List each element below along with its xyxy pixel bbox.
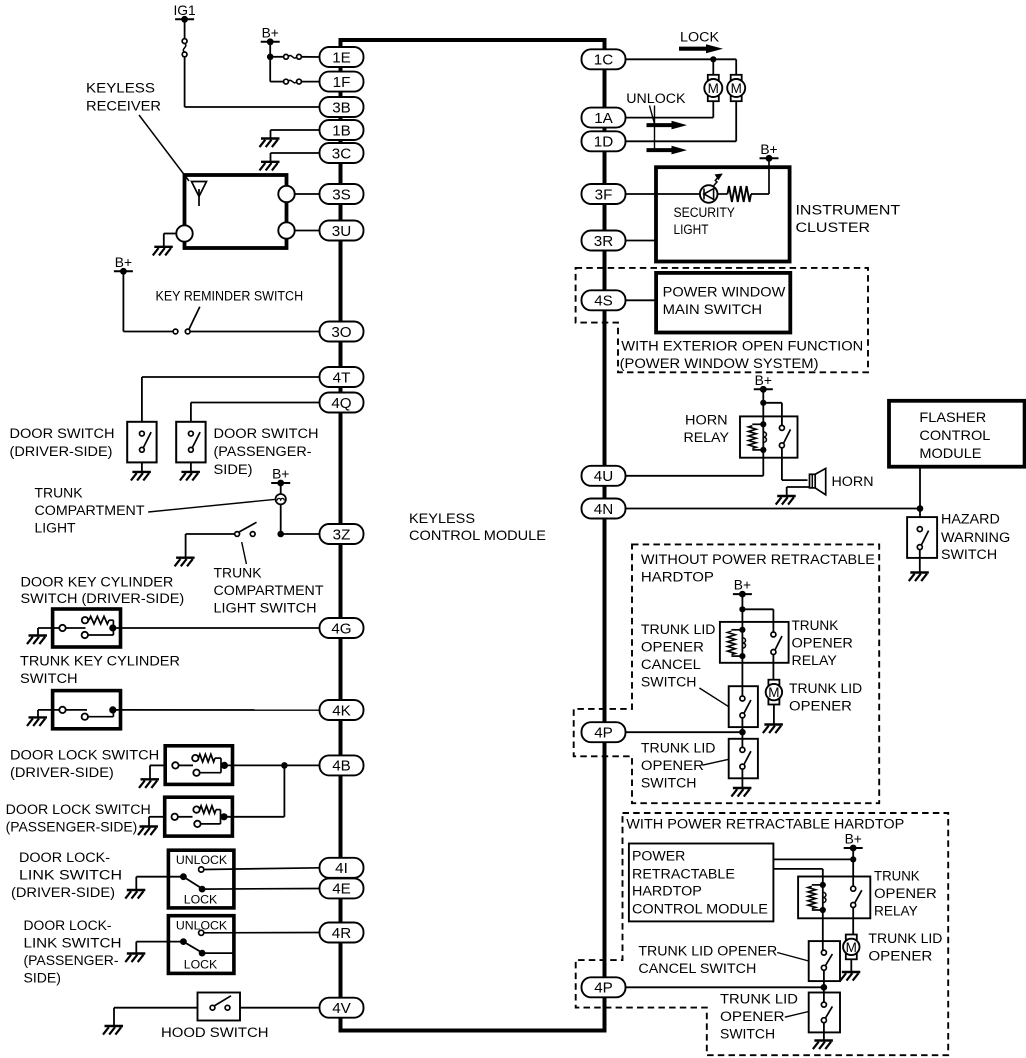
svg-text:SWITCH: SWITCH <box>20 671 78 686</box>
svg-text:1C: 1C <box>594 52 613 69</box>
svg-text:4T: 4T <box>333 369 351 386</box>
door lock-link switch passenger contacts <box>176 919 320 972</box>
hazard warning switch contacts <box>917 527 928 550</box>
power B+ top-left <box>261 25 280 45</box>
wire 3F to security light <box>625 193 700 195</box>
svg-text:LINK SWITCH: LINK SWITCH <box>24 936 122 951</box>
dashed region with exterior open function <box>576 268 868 372</box>
svg-text:INSTRUMENT: INSTRUMENT <box>796 203 901 218</box>
wire 3R to instrument cluster <box>625 240 656 242</box>
svg-text:SWITCH: SWITCH <box>941 547 997 562</box>
wire B+ to relay switch <box>852 848 854 886</box>
svg-text:M: M <box>846 940 857 955</box>
wire relay switch 2 to motor <box>852 908 854 936</box>
svg-text:RELAY: RELAY <box>874 904 918 919</box>
svg-text:DOOR SWITCH: DOOR SWITCH <box>10 426 115 441</box>
pin 1D <box>582 131 626 151</box>
pin 4R <box>320 923 364 943</box>
svg-text:POWER: POWER <box>632 849 686 864</box>
svg-text:CONTROL MODULE: CONTROL MODULE <box>409 527 546 543</box>
pin 4U <box>582 466 626 486</box>
svg-text:M: M <box>768 685 779 700</box>
pin 4P upper <box>582 722 626 742</box>
wire trunk key cylinder ground lead <box>38 710 59 718</box>
wire 4P lower to junction <box>625 986 824 988</box>
ground trunk lid opener motor 2 <box>840 972 860 981</box>
pin 3S <box>320 184 364 204</box>
svg-text:3U: 3U <box>332 223 351 240</box>
wire cancel switch to junction <box>741 718 743 748</box>
power window main switch label <box>663 284 786 318</box>
pin 3C <box>320 143 364 163</box>
svg-text:RELAY: RELAY <box>792 653 837 668</box>
keyless receiver box <box>185 175 287 248</box>
svg-text:OPENER: OPENER <box>641 758 704 773</box>
svg-text:OPENER: OPENER <box>874 886 937 901</box>
wire horn relay switch to horn <box>782 448 808 480</box>
wire motor M3 ground lead <box>773 705 775 725</box>
svg-text:4R: 4R <box>332 925 351 942</box>
svg-text:(PASSENGER-: (PASSENGER- <box>214 444 312 459</box>
trunk opener relay K3 <box>798 877 870 919</box>
pin 4N <box>582 499 626 519</box>
leader line trunk light <box>148 499 275 512</box>
trunk compartment light label <box>35 486 145 536</box>
svg-text:CANCEL SWITCH: CANCEL SWITCH <box>638 961 756 976</box>
pin 4I <box>320 858 364 878</box>
svg-text:KEYLESS: KEYLESS <box>86 81 155 96</box>
door lock-link switch passenger label <box>24 918 122 986</box>
svg-text:TRUNK: TRUNK <box>874 869 920 884</box>
svg-text:SECURITY: SECURITY <box>674 205 735 220</box>
horn relay K1 <box>740 416 798 457</box>
wire door lock switch driver to 4B <box>224 764 320 766</box>
svg-text:TRUNK LID: TRUNK LID <box>789 681 862 696</box>
trunk lid opener cancel switch 2 contacts <box>821 950 832 970</box>
pin 3F <box>582 184 626 204</box>
svg-text:(DRIVER-SIDE): (DRIVER-SIDE) <box>11 885 115 900</box>
junction trunk opener 2 B+ <box>850 856 856 862</box>
wire B+ to horn relay <box>763 389 782 425</box>
svg-text:MAIN SWITCH: MAIN SWITCH <box>663 301 762 317</box>
pin 4B <box>320 755 364 775</box>
svg-text:1F: 1F <box>333 74 351 91</box>
key reminder switch S1 <box>173 307 200 334</box>
svg-text:WITH EXTERIOR OPEN FUNCTION: WITH EXTERIOR OPEN FUNCTION <box>621 339 863 354</box>
motor M3 trunk lid opener <box>766 680 782 705</box>
keyless control module U1 outline <box>341 40 605 1031</box>
ground horn <box>776 496 796 505</box>
svg-text:LOCK: LOCK <box>184 958 218 972</box>
svg-text:B+: B+ <box>845 832 862 847</box>
svg-text:4N: 4N <box>594 501 613 518</box>
svg-text:4S: 4S <box>594 293 613 310</box>
junction 4N hazard <box>917 505 924 512</box>
wire B+ to key reminder switch <box>123 271 173 331</box>
dashed region with power retractable hardtop <box>576 813 949 1055</box>
ground trunk light switch <box>175 558 195 567</box>
svg-text:CANCEL: CANCEL <box>641 657 701 672</box>
wire motor M4 ground lead <box>850 959 852 972</box>
svg-text:FLASHER: FLASHER <box>919 409 986 425</box>
door key cylinder switch box <box>53 609 121 647</box>
svg-text:WARNING: WARNING <box>941 530 1010 545</box>
ground trunk key cylinder <box>27 717 47 726</box>
ground door lock-link driver <box>125 890 145 899</box>
trunk lid opener cancel switch 2 label <box>638 944 777 977</box>
svg-text:RECEIVER: RECEIVER <box>86 99 161 114</box>
svg-text:LOCK: LOCK <box>184 893 218 907</box>
pin 4T <box>320 367 364 387</box>
trunk light switch S2 <box>235 522 257 536</box>
with power retractable hardtop label <box>626 817 904 832</box>
svg-text:HORN: HORN <box>832 474 874 489</box>
junction 4B <box>281 762 288 769</box>
junction horn relay B+ <box>760 400 766 406</box>
antenna symbol <box>192 182 207 207</box>
svg-text:B+: B+ <box>755 373 772 388</box>
leader line cancel switch <box>699 688 728 707</box>
wire IG1 to 3B <box>185 19 320 107</box>
terminal 3S on receiver <box>278 186 294 202</box>
trunk lid opener switch label <box>641 741 716 791</box>
svg-text:3R: 3R <box>594 233 613 250</box>
trunk lid opener cancel switch 2 box <box>809 941 840 981</box>
svg-text:HOOD SWITCH: HOOD SWITCH <box>161 1025 269 1040</box>
wire 1B ground lead <box>271 130 321 139</box>
svg-text:(DRIVER-SIDE): (DRIVER-SIDE) <box>10 444 113 459</box>
svg-text:LOCK: LOCK <box>680 30 719 45</box>
terminal gnd on receiver <box>176 225 192 241</box>
ground 3C <box>260 162 280 171</box>
svg-text:M: M <box>708 81 719 96</box>
wire door lock-link passenger ground lead <box>136 942 183 954</box>
svg-text:LIGHT: LIGHT <box>674 222 709 237</box>
svg-text:SWITCH: SWITCH <box>641 776 697 791</box>
svg-text:1E: 1E <box>332 49 351 66</box>
terminal 3U on receiver <box>278 222 294 238</box>
svg-text:SIDE): SIDE) <box>214 462 253 477</box>
svg-text:CONTROL MODULE: CONTROL MODULE <box>632 902 768 917</box>
door key cylinder switch contacts <box>59 616 116 638</box>
svg-text:HARDTOP: HARDTOP <box>632 884 702 899</box>
wire relay coil to cancel switch <box>741 656 743 696</box>
svg-text:1A: 1A <box>594 110 613 127</box>
wire flasher to hazard switch <box>919 467 921 517</box>
svg-text:COMPARTMENT: COMPARTMENT <box>35 503 145 518</box>
resistor security light <box>718 158 770 202</box>
trunk lid opener switch box <box>729 739 758 779</box>
horn speaker <box>810 468 826 494</box>
wire PRH module to B+ <box>773 858 853 860</box>
instrument cluster label <box>796 203 901 236</box>
dashed region without power retractable hardtop <box>574 544 880 803</box>
door lock switch driver box <box>165 746 232 785</box>
trunk lid opener 2 label <box>868 931 942 964</box>
svg-text:LINK SWITCH: LINK SWITCH <box>19 868 122 883</box>
pin 3U <box>320 221 364 241</box>
svg-text:OPENER: OPENER <box>868 949 932 964</box>
svg-text:HORN: HORN <box>685 413 728 428</box>
lock arrow label <box>679 30 723 54</box>
svg-text:DOOR LOCK SWITCH: DOOR LOCK SWITCH <box>6 802 151 817</box>
door switch driver-side <box>127 422 156 463</box>
wire horn relay coil to 4U <box>625 450 763 476</box>
junction 4P upper <box>739 729 746 736</box>
svg-text:RELAY: RELAY <box>684 430 729 445</box>
power B+ trunk opener <box>733 578 752 598</box>
svg-text:CONTROL: CONTROL <box>919 427 990 443</box>
svg-text:4E: 4E <box>332 881 351 898</box>
door lock switch passenger contacts <box>172 806 228 827</box>
svg-text:TRUNK LID: TRUNK LID <box>641 622 716 637</box>
svg-text:LIGHT: LIGHT <box>35 521 76 536</box>
wire motor M2 to 1D <box>625 101 736 141</box>
keyless receiver label <box>86 81 161 114</box>
door switch passenger label <box>214 426 319 477</box>
wire door switch passenger to ground <box>190 462 192 472</box>
svg-text:CLUSTER: CLUSTER <box>796 220 871 235</box>
svg-text:B+: B+ <box>262 25 279 40</box>
wire hood switch to 4V <box>240 1007 320 1009</box>
trunk key cylinder switch box <box>53 691 121 729</box>
ground trunk lid opener switch <box>731 788 751 797</box>
wire B+ through trunk light to 3Z <box>281 483 320 534</box>
wire receiver ground lead <box>164 234 177 247</box>
svg-text:MODULE: MODULE <box>919 445 981 461</box>
ground door key cylinder <box>27 636 47 645</box>
svg-text:B+: B+ <box>760 142 777 157</box>
door switch passenger-side <box>176 422 205 463</box>
pin 1C <box>582 49 626 69</box>
trunk light switch label <box>214 566 324 616</box>
svg-text:OPENER: OPENER <box>792 636 854 651</box>
horn label <box>832 474 874 489</box>
svg-text:COMPARTMENT: COMPARTMENT <box>214 583 324 598</box>
svg-text:UNLOCK: UNLOCK <box>626 91 685 106</box>
security light label <box>674 205 735 237</box>
ground hazard switch <box>909 573 929 582</box>
wire key reminder switch to 3O <box>190 331 320 333</box>
flasher control module box <box>889 401 1025 467</box>
ground hood switch <box>103 1026 123 1035</box>
door lock switch driver contacts <box>172 754 228 776</box>
pin 3B <box>320 97 364 117</box>
svg-text:WITHOUT POWER RETRACTABLE: WITHOUT POWER RETRACTABLE <box>641 552 875 567</box>
ground receiver <box>153 247 173 256</box>
wire door lock switch driver ground lead <box>150 765 165 779</box>
power B+ trunk opener 2 <box>844 832 863 852</box>
svg-text:3O: 3O <box>331 324 351 341</box>
svg-text:SIDE): SIDE) <box>24 971 62 986</box>
pin 3R <box>582 231 626 251</box>
power B+ instrument cluster <box>760 142 779 162</box>
power B+ trunk light <box>271 467 290 487</box>
wire 4Q to door switch passenger <box>191 403 320 423</box>
trunk key cylinder switch label <box>20 654 180 687</box>
svg-text:M: M <box>731 81 742 96</box>
svg-text:SWITCH (DRIVER-SIDE): SWITCH (DRIVER-SIDE) <box>21 591 185 606</box>
svg-text:4I: 4I <box>335 860 348 877</box>
svg-text:TRUNK: TRUNK <box>792 618 839 633</box>
wire door lock switch passenger ground lead <box>149 817 165 827</box>
trunk opener relay label <box>792 618 854 668</box>
wire receiver to 3U <box>294 230 320 232</box>
ground door switch passenger <box>180 472 200 481</box>
svg-text:4G: 4G <box>331 620 351 637</box>
svg-text:B+: B+ <box>272 467 289 482</box>
wire 3C ground lead <box>271 153 321 162</box>
pin 4Q <box>320 393 364 413</box>
hood switch label <box>161 1025 269 1040</box>
svg-text:DOOR KEY CYLINDER: DOOR KEY CYLINDER <box>21 575 174 590</box>
wire 4N to hazard switch <box>625 508 920 510</box>
motor M1 door lock <box>704 75 722 101</box>
pin 3Z <box>320 524 364 544</box>
svg-text:TRUNK: TRUNK <box>214 566 262 581</box>
pin 1F <box>320 72 364 92</box>
pin 4E <box>320 878 364 898</box>
svg-text:SWITCH: SWITCH <box>641 675 697 690</box>
trunk lid opener switch 2 box <box>809 993 840 1033</box>
door lock-link switch driver box <box>168 850 234 908</box>
svg-text:OPENER: OPENER <box>789 699 852 714</box>
svg-text:KEY REMINDER SWITCH: KEY REMINDER SWITCH <box>156 289 304 304</box>
wire B+ to trunk opener relay <box>742 594 773 632</box>
hood switch contacts <box>210 996 231 1010</box>
door lock-link switch driver label <box>11 850 122 900</box>
svg-text:3C: 3C <box>332 145 351 162</box>
svg-text:4V: 4V <box>332 1000 351 1017</box>
power window main switch box <box>656 273 790 333</box>
instrument cluster box <box>656 167 790 261</box>
pin 4G <box>320 618 364 638</box>
horn relay label <box>684 413 729 446</box>
svg-text:UNLOCK: UNLOCK <box>176 853 228 867</box>
wire 4P to junction <box>625 731 742 733</box>
svg-text:DOOR SWITCH: DOOR SWITCH <box>214 426 319 441</box>
wire hood switch to ground <box>114 1008 198 1026</box>
wire trunk lid opener switch 2 ground <box>823 1023 825 1041</box>
power retractable hardtop control module box <box>629 844 774 922</box>
motor M4 trunk lid opener <box>843 935 859 960</box>
wire trunk key cylinder to 4K <box>113 709 320 711</box>
unlock arrow label <box>626 91 687 154</box>
ground 1B <box>260 139 280 148</box>
leader line keyless receiver <box>139 115 189 181</box>
pin 4K <box>320 700 364 720</box>
svg-text:HARDTOP: HARDTOP <box>641 570 714 585</box>
ground door lock-link passenger <box>125 954 145 963</box>
svg-text:B+: B+ <box>115 255 132 270</box>
trunk lid opener label <box>789 681 862 714</box>
ground door lock switch driver <box>139 779 159 788</box>
without power retractable hardtop label <box>641 552 875 585</box>
svg-text:4B: 4B <box>332 758 351 775</box>
svg-text:POWER WINDOW: POWER WINDOW <box>663 284 786 300</box>
pin 1A <box>582 108 626 128</box>
svg-text:4Q: 4Q <box>331 395 351 412</box>
key reminder switch label <box>156 289 304 304</box>
trunk lid opener switch 2 contacts <box>821 1002 832 1023</box>
junction trunk opener B+ <box>739 606 745 612</box>
svg-text:LIGHT SWITCH: LIGHT SWITCH <box>214 601 317 616</box>
flasher control module label <box>919 409 990 461</box>
wire motor M1 to 1A <box>625 101 713 118</box>
door lock switch driver label <box>10 748 159 781</box>
wire PRH module to relay coil <box>773 869 822 885</box>
trunk opener relay K2 <box>720 622 789 663</box>
svg-text:(DRIVER-SIDE): (DRIVER-SIDE) <box>10 765 114 780</box>
wire door key cylinder ground lead <box>38 628 59 636</box>
pin 4V <box>320 998 364 1018</box>
door lock-link switch passenger box <box>168 916 234 974</box>
keyless control module U1 label <box>409 510 546 543</box>
wire B+ to 1E/1F <box>270 42 320 82</box>
ground trunk lid opener motor <box>763 725 783 734</box>
trunk lid opener cancel switch contacts <box>740 696 751 718</box>
wire trunk light switch <box>186 534 235 558</box>
pin 4P lower <box>582 977 626 997</box>
trunk lid opener switch 2 label <box>720 992 798 1042</box>
leader line trunk lid opener switch <box>702 759 728 765</box>
door key cylinder switch label <box>21 575 185 607</box>
trunk opener relay 2 label <box>874 869 937 919</box>
svg-text:4P: 4P <box>594 980 613 997</box>
junction 3Z <box>277 531 284 538</box>
svg-text:1D: 1D <box>594 134 613 151</box>
hazard warning switch box <box>907 517 937 558</box>
door lock switch passenger label <box>6 802 151 835</box>
wire relay coil 2 to cancel switch 2 <box>822 910 824 950</box>
svg-text:DOOR LOCK SWITCH: DOOR LOCK SWITCH <box>10 748 159 763</box>
svg-text:3F: 3F <box>595 186 613 203</box>
svg-text:SWITCH: SWITCH <box>720 1027 775 1042</box>
svg-text:TRUNK LID: TRUNK LID <box>641 741 716 756</box>
svg-text:OPENER: OPENER <box>641 640 704 655</box>
power retractable hardtop control module label <box>632 849 768 917</box>
pin 4S <box>582 290 626 310</box>
wire door switch driver to ground <box>141 462 143 472</box>
connector fuse 1E <box>284 54 302 59</box>
pin 1E <box>320 47 364 67</box>
svg-text:KEYLESS: KEYLESS <box>409 510 475 526</box>
svg-text:IG1: IG1 <box>173 3 195 18</box>
with exterior open function label <box>620 339 864 372</box>
svg-text:TRUNK LID: TRUNK LID <box>720 992 798 1007</box>
svg-text:DOOR LOCK-: DOOR LOCK- <box>19 850 110 865</box>
wire cancel switch 2 to junction <box>823 970 825 1002</box>
ground door switch driver <box>131 472 151 481</box>
hood switch box <box>198 993 241 1021</box>
wire door lock switch passenger to junction 4B <box>224 765 284 816</box>
wire horn ground lead <box>787 487 810 496</box>
wire trunk lid opener switch ground <box>741 769 743 788</box>
trunk lid opener switch contacts <box>740 747 751 769</box>
svg-text:TRUNK: TRUNK <box>35 486 83 501</box>
wire receiver to 3S <box>294 193 320 195</box>
trunk key cylinder switch contacts <box>59 706 116 720</box>
door switch driver label <box>10 426 115 459</box>
power B+ key reminder <box>114 255 133 275</box>
svg-text:(PASSENGER-: (PASSENGER- <box>24 953 119 968</box>
door lock switch passenger box <box>165 797 233 836</box>
wire relay switch to trunk lid opener motor <box>772 655 774 683</box>
wire hazard switch to ground <box>919 550 921 573</box>
svg-text:WITH POWER RETRACTABLE HARDTOP: WITH POWER RETRACTABLE HARDTOP <box>626 817 904 832</box>
svg-text:TRUNK LID: TRUNK LID <box>868 931 942 946</box>
svg-text:4K: 4K <box>332 702 351 719</box>
